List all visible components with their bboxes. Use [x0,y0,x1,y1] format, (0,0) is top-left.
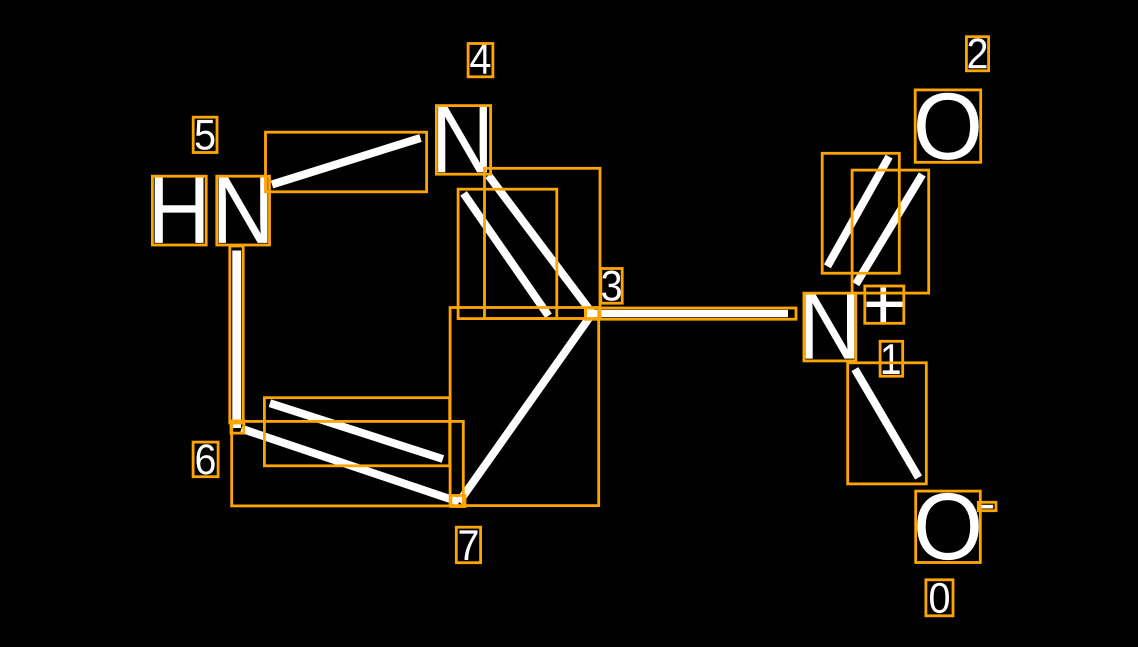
bounding box around bond N4=C3 outer line [485,168,601,318]
bounding box around bond N1-O0 [848,363,927,484]
bounding box around bond N5-C6 [230,246,243,423]
bounding box around O2 label [915,90,981,162]
bounding box around index label 5 [193,117,217,152]
bounding box at ring carbon C7 [451,496,465,507]
index label 3 (atom C3) [602,271,621,301]
bond N4=C3 inner line (ring double bond) [464,193,549,315]
plus charge sign of N1+, vertical stroke [880,287,886,322]
bounding box around bond N4=C3 inner line [458,189,557,318]
bounding box around plus charge sign [865,286,904,323]
bounding box around N4 label [436,106,490,175]
bounding box around H label [152,176,206,245]
index label 7 (atom C7) [460,530,478,560]
atom label N (nitro nitrogen N1+) [806,293,855,358]
bond N1=O2 outer line (nitro double bond) [856,174,922,284]
atom label O (nitro oxygen O0-) [917,493,979,560]
bounding box around index label 0 [926,580,953,616]
atom label H (of ring N5-H) [155,178,204,243]
bounding box around index label 4 [468,44,493,77]
serif foot of index label 1 [883,370,899,374]
bond C3-C7 (ring single bond) [459,313,592,502]
bounding box around index label 2 [966,37,988,71]
bounding box around minus charge sign [978,502,996,510]
index label 5 (atom N5) [196,120,215,150]
index label 0 (atom O0) [930,583,949,613]
index label 1 (atom N1) [883,344,900,374]
atom label O (nitro oxygen O2) [917,93,979,160]
index label 4 (atom N4) [470,44,490,74]
bounding box around bond N1=O2 outer line [852,170,929,293]
atom label N (ring atom N5) [219,178,268,243]
bond N5-N4 (ring N-N single bond) [272,138,421,185]
bond N5-C6 (ring single bond) [232,251,241,429]
bounding box around bond N1=O2 inner line [822,153,899,273]
index label 2 (atom O2) [969,38,987,68]
index label 6 (atom C6) [197,444,215,474]
bond C6=C7 inner line (ring double bond) [270,403,443,459]
bounding box around index label 3 [601,269,622,304]
bounding box around bond C6=C7 outer line [232,421,464,506]
bond C3-N1 (C-N single bond to nitro group) [588,310,788,317]
bounding box around O0 label [916,491,981,562]
bounding box at ring carbon C6 [231,421,244,433]
bounding box around N5 label [217,176,270,245]
bounding box at ring carbon C3 [586,308,600,319]
bounding box around N1 label [804,293,856,361]
bounding box around index label 1 [880,341,903,376]
bond N1=O2 inner line (nitro double bond) [827,157,889,267]
bond N4=C3 outer line (ring double bond) [489,176,593,314]
bond N1-O0 (nitro single bond) [855,369,919,477]
atom label N (ring atom N4) [438,107,487,172]
plus charge sign of N1+, horizontal stroke [867,302,904,307]
bounding box around bond C3-N1 [586,308,797,319]
bounding box around bond N5-N4 [266,132,427,192]
bounding box around index label 6 [193,442,218,477]
bounding box around bond C3-C7 [450,308,599,506]
minus charge sign of O0- [980,505,993,509]
bond C6=C7 outer line (ring double bond) [242,429,460,502]
bounding box around bond C6=C7 inner line [264,398,449,466]
bounding box around index label 7 [456,527,480,563]
